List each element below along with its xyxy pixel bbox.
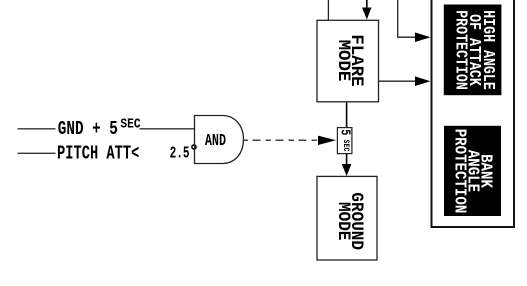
delay box 5 SEC <box>337 128 353 154</box>
wire input 2 stub <box>18 152 56 154</box>
wire dashed AND output <box>243 139 319 141</box>
wire input 1 to AND gate <box>140 128 195 130</box>
node label GND + 5 SEC <box>58 117 141 141</box>
FLARE MODE box <box>317 20 379 102</box>
AND gate U1 <box>195 116 244 164</box>
wire top L to protection box <box>398 0 418 37</box>
arrowhead into 5 sec delay <box>318 136 336 145</box>
wire arrow from top into FLARE MODE <box>366 0 368 9</box>
wire FLARE MODE to delay <box>346 102 348 128</box>
svg-text:2.5: 2.5 <box>170 145 190 164</box>
wire delay to GROUND MODE <box>346 154 348 166</box>
svg-text:5: 5 <box>337 129 353 135</box>
BANK ANGLE PROTECTION box <box>444 126 501 216</box>
svg-text:PITCH ATT<: PITCH ATT< <box>57 143 139 165</box>
svg-text:FLAREMODE: FLAREMODE <box>333 34 365 86</box>
GROUND MODE box <box>317 176 377 260</box>
arrowhead into FLARE MODE top <box>362 8 371 20</box>
svg-text:AND: AND <box>205 132 226 151</box>
arrowhead into protection box (top) <box>415 32 431 42</box>
node label PITCH ATT < 2.5 deg <box>57 143 196 165</box>
wire input 1 stub <box>18 128 56 130</box>
wire FLARE MODE to protection box <box>379 80 419 82</box>
arrowhead into GROUND MODE <box>342 164 352 176</box>
arrowhead into protection box (mid) <box>415 76 431 86</box>
HIGH ANGLE OF ATTACK PROTECTION box <box>444 5 502 96</box>
protections outer box <box>432 0 515 227</box>
wire top into FLARE MODE <box>327 0 329 20</box>
svg-text:SEC: SEC <box>341 140 350 152</box>
svg-text:GND + 5: GND + 5 <box>58 120 118 141</box>
svg-text:SEC: SEC <box>120 117 141 132</box>
svg-text:HIGH ANGLEOF ATTACKPROTECTION: HIGH ANGLEOF ATTACKPROTECTION <box>451 10 498 90</box>
